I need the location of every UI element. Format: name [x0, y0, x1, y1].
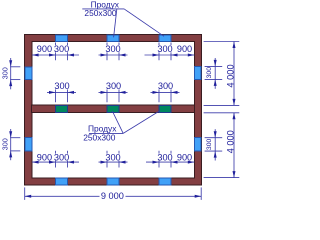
- vent left wall lower: [25, 138, 32, 151]
- dimensions row C (lower room, bottom wall vents): [32, 151, 194, 168]
- dimensions row B (above middle wall vents): [47, 86, 180, 103]
- row A extension lines: [55, 43, 57, 61]
- svg-text:300: 300: [54, 44, 69, 54]
- row A dim lines: [32, 54, 79, 56]
- svg-text:300: 300: [106, 81, 121, 91]
- svg-text:300: 300: [206, 139, 213, 151]
- vent top wall 3: [159, 35, 171, 42]
- left vertical 300 dim upper: [10, 58, 20, 89]
- right 4000 dim lower: [233, 113, 235, 178]
- svg-text:4 000: 4 000: [226, 130, 236, 153]
- vent left wall upper: [25, 67, 32, 80]
- row A arrows: [32, 54, 194, 57]
- svg-text:300: 300: [105, 44, 120, 54]
- vent bottom wall 1: [56, 178, 68, 185]
- svg-text:900: 900: [37, 44, 52, 54]
- bottom 9000 dim: [25, 187, 202, 200]
- vent top wall 1: [56, 35, 68, 42]
- row A texts: [37, 44, 192, 54]
- vent middle wall 2 green: [107, 105, 119, 112]
- vent bottom wall 3: [159, 178, 171, 185]
- svg-text:300: 300: [54, 81, 69, 91]
- right vertical 300 dim lower: [205, 129, 223, 160]
- svg-text:4 000: 4 000: [226, 64, 236, 87]
- row C texts: [37, 152, 192, 162]
- label vent middle (Продух 250x300): [83, 111, 160, 143]
- row B texts: [54, 81, 173, 91]
- svg-text:9 000: 9 000: [101, 191, 124, 201]
- middle foundation wall: [32, 105, 195, 112]
- left vertical 300 dim lower: [10, 129, 20, 160]
- svg-text:300: 300: [206, 67, 213, 79]
- label vent top (Продух 250x300): [82, 0, 164, 37]
- row B dim lines: [47, 91, 76, 93]
- svg-text:300: 300: [54, 152, 69, 162]
- right 4000 dim upper: [233, 42, 235, 106]
- vent middle wall 1 green: [56, 105, 68, 112]
- vent top wall 2: [107, 35, 119, 42]
- row C dim lines: [32, 161, 79, 163]
- row C extension lines: [55, 151, 57, 168]
- svg-text:900: 900: [37, 152, 52, 162]
- svg-text:300: 300: [1, 67, 10, 79]
- right vertical 300 dim upper: [205, 58, 223, 89]
- svg-text:300: 300: [157, 152, 172, 162]
- svg-text:300: 300: [157, 44, 172, 54]
- svg-text:300: 300: [158, 81, 173, 91]
- vent right wall upper: [194, 66, 201, 79]
- vent bottom wall 2: [107, 178, 119, 185]
- svg-text:300: 300: [1, 138, 10, 150]
- svg-text:300: 300: [105, 152, 120, 162]
- outer foundation wall: [25, 35, 202, 186]
- svg-text:900: 900: [177, 44, 192, 54]
- dimensions row A (upper room, top wall vents): [32, 43, 194, 61]
- row B extension lines: [55, 86, 57, 103]
- vent middle wall 3 green: [159, 105, 171, 112]
- svg-text:900: 900: [177, 152, 192, 162]
- vent right wall lower: [194, 138, 201, 151]
- row C arrows: [32, 161, 194, 164]
- right side extension lines: [204, 42, 240, 178]
- row B arrows: [49, 91, 178, 94]
